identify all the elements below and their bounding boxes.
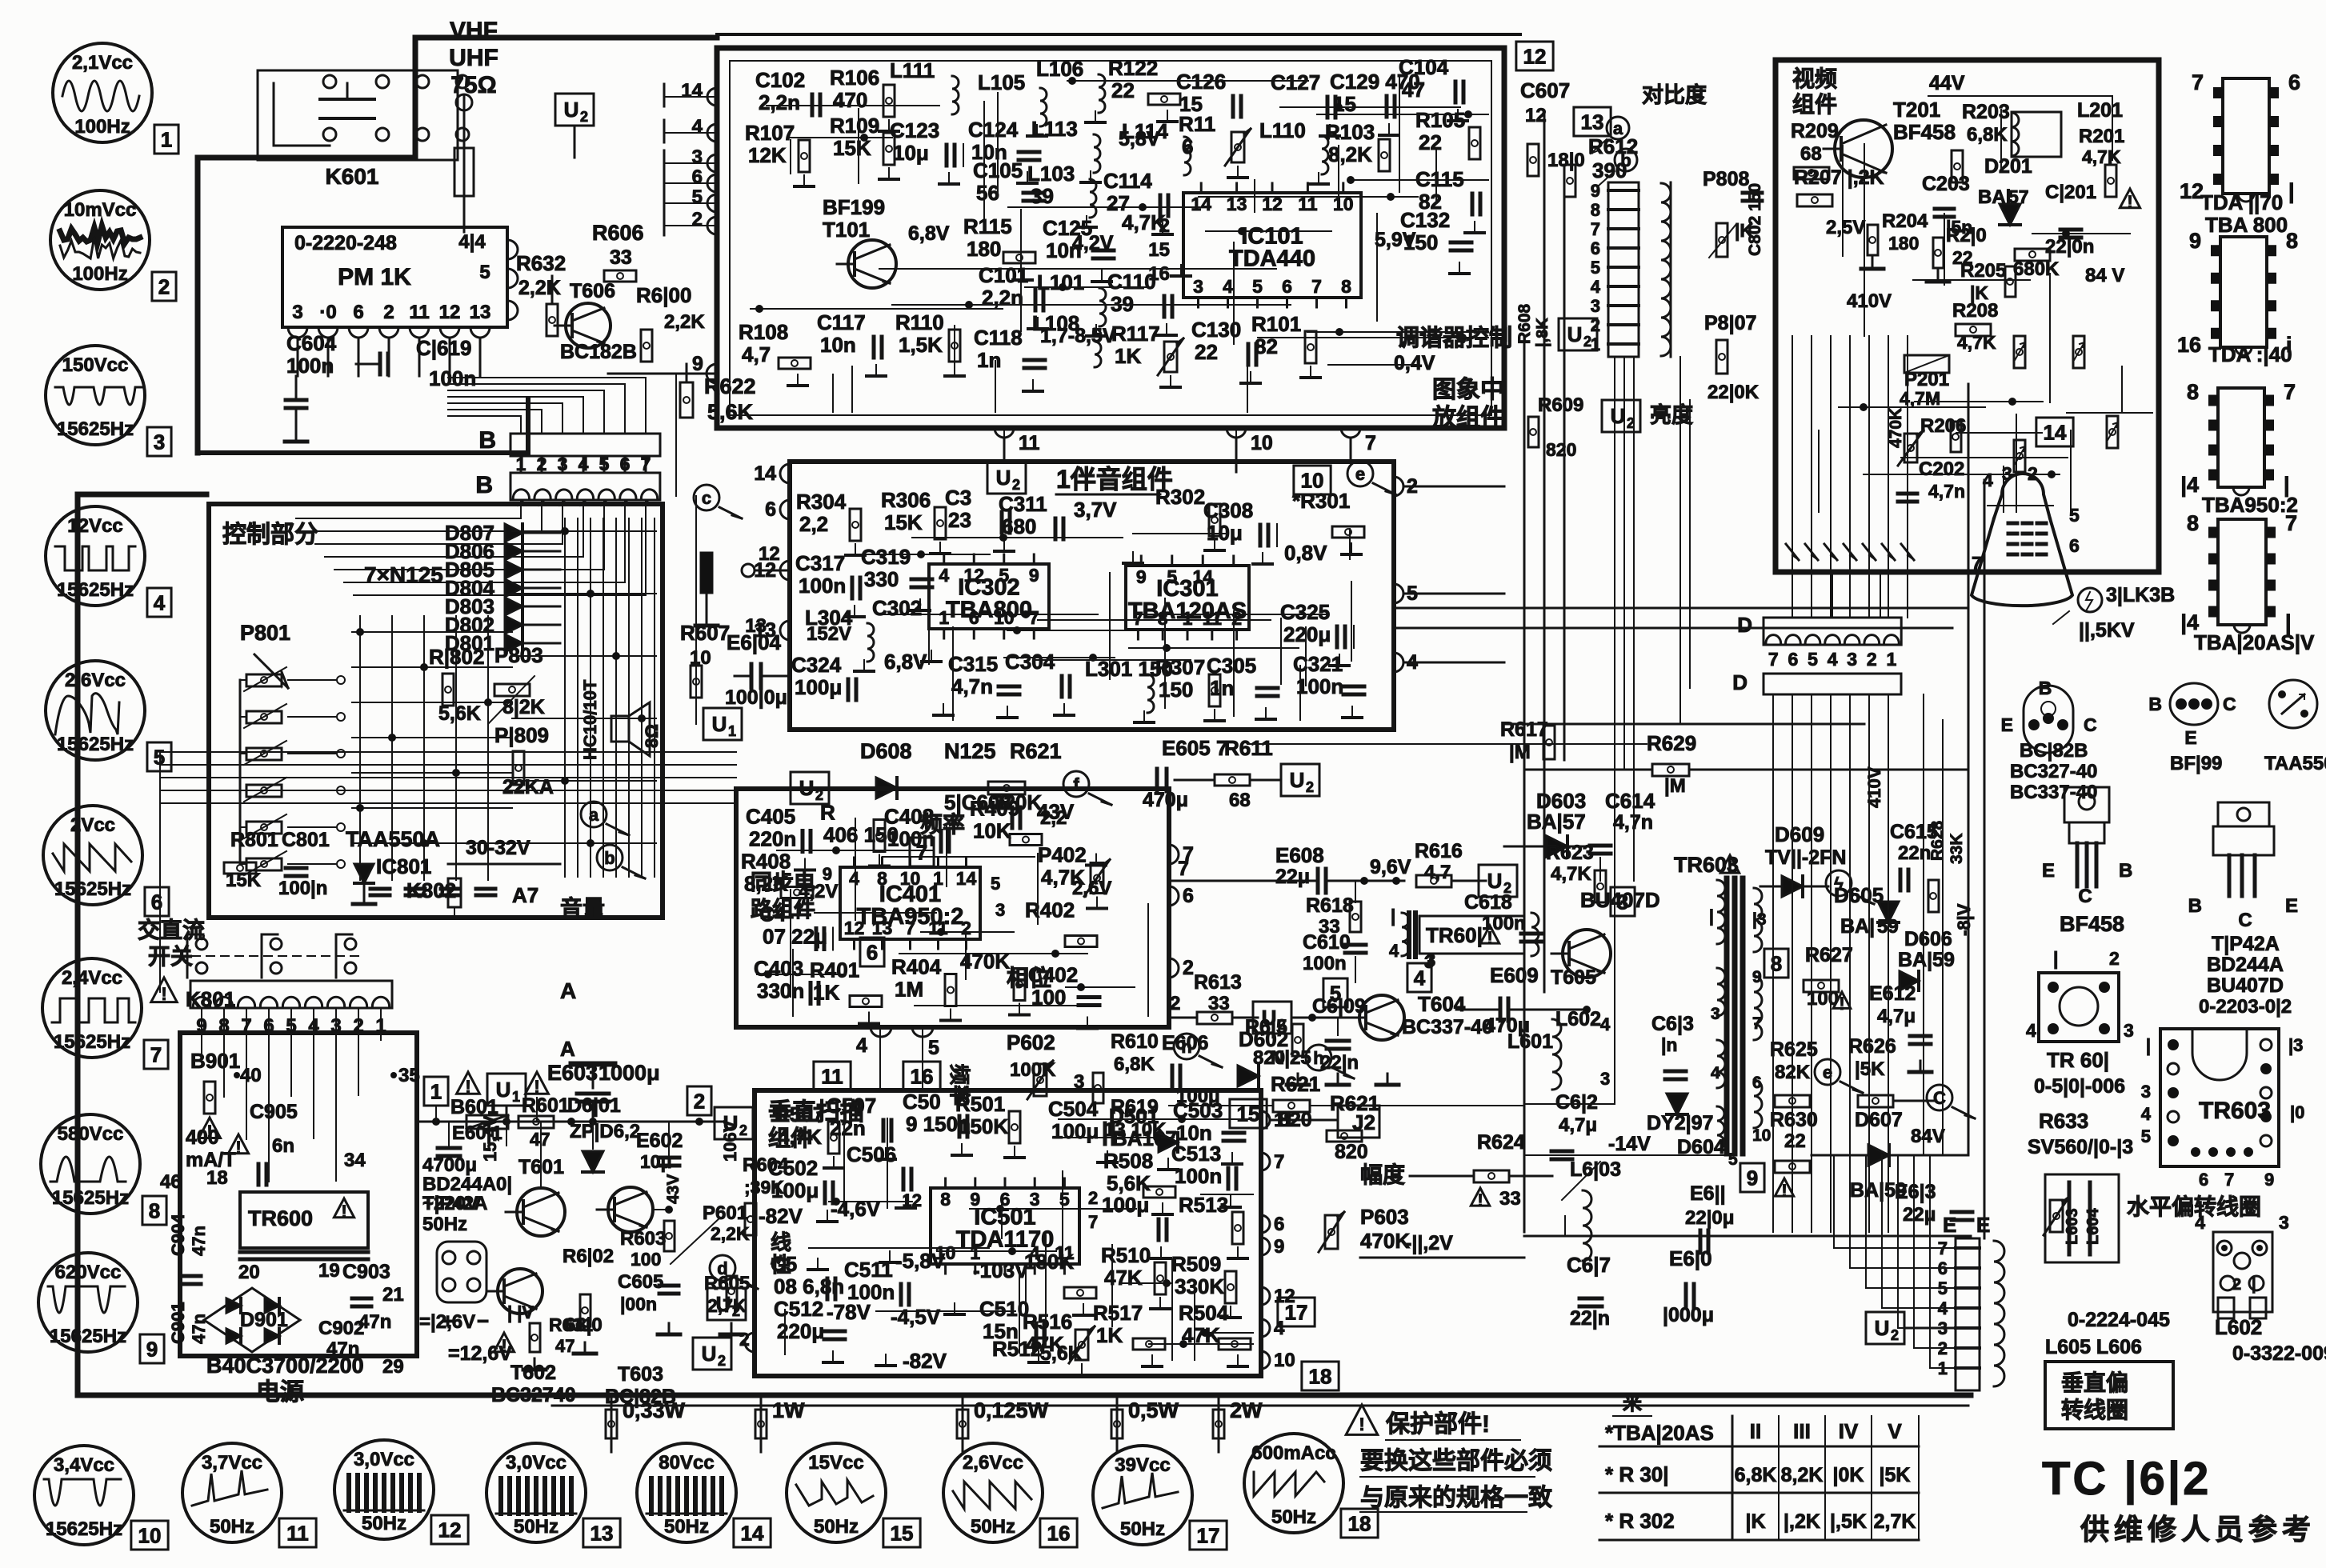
svg-text:2: 2 (1583, 334, 1591, 350)
svg-text:1: 1 (939, 607, 949, 628)
svg-text:2: 2 (158, 274, 170, 298)
svg-text:E608: E608 (1275, 843, 1324, 867)
svg-text:L110: L110 (1259, 118, 1306, 142)
svg-text:R208: R208 (1952, 300, 1998, 322)
svg-text:12: 12 (963, 565, 984, 586)
svg-text:5: 5 (599, 454, 610, 474)
svg-text:|5K: |5K (1855, 1058, 1885, 1080)
svg-text:f: f (1073, 774, 1079, 794)
svg-text:6: 6 (969, 607, 979, 628)
svg-text:33: 33 (610, 246, 632, 269)
svg-text:C117: C117 (817, 310, 866, 334)
svg-text:19: 19 (318, 1260, 340, 1282)
svg-text:| |V: | |V (507, 1302, 534, 1322)
svg-text:D201: D201 (1984, 155, 2032, 178)
svg-text:2,5V: 2,5V (1826, 217, 1865, 238)
node a b circles (1607, 117, 1629, 139)
svg-text:16: 16 (1047, 1521, 1071, 1545)
svg-text:1M: 1M (895, 978, 923, 1002)
svg-text:43V: 43V (664, 1174, 683, 1204)
svg-text:C: C (2078, 886, 2092, 907)
svg-text:6: 6 (1282, 276, 1292, 297)
svg-text:50Hz: 50Hz (514, 1516, 558, 1538)
svg-text:*R301: *R301 (1292, 489, 1350, 513)
contrast comb (1608, 182, 1639, 357)
svg-text:R624: R624 (1477, 1131, 1525, 1154)
svg-text:U: U (1875, 1316, 1890, 1340)
svg-text:180: 180 (1888, 233, 1919, 254)
waveform test point 2 (10mVcc) (50, 190, 150, 290)
waveform test point 6 (2Vcc) (43, 806, 142, 905)
svg-text:U: U (564, 98, 579, 122)
svg-text:C506: C506 (847, 1142, 896, 1166)
svg-text:-78V: -78V (827, 1300, 871, 1324)
svg-text:6: 6 (2288, 70, 2300, 94)
svg-text:1: 1 (161, 127, 172, 151)
svg-text:C118: C118 (974, 326, 1023, 350)
svg-text:330n: 330n (757, 979, 804, 1003)
svg-text:13: 13 (1581, 110, 1604, 134)
svg-text:4: 4 (154, 590, 166, 614)
svg-text:视频: 视频 (1792, 66, 1837, 91)
svg-text:470K: 470K (1887, 408, 1905, 448)
svg-text:10: 10 (138, 1523, 162, 1547)
svg-text:C|619: C|619 (416, 336, 471, 360)
wire IF bottom to audio (1003, 428, 1005, 462)
svg-text:5: 5 (1167, 566, 1177, 587)
svg-text:2: 2 (1306, 779, 1314, 795)
svg-text:2,1Vcc: 2,1Vcc (72, 52, 133, 74)
svg-text:P8|07: P8|07 (1704, 312, 1756, 334)
svg-text:转线圈: 转线圈 (2061, 1398, 2128, 1422)
svg-text:线: 线 (771, 1230, 791, 1254)
svg-text:4: 4 (1223, 276, 1233, 297)
svg-text:84 V: 84 V (2085, 265, 2124, 286)
svg-text:P602: P602 (1007, 1030, 1055, 1054)
svg-text:E: E (2042, 860, 2055, 882)
U2 box right (715, 1107, 753, 1139)
svg-text:4: 4 (2141, 1104, 2152, 1124)
svg-text:|3: |3 (2288, 1035, 2303, 1055)
svg-text:12: 12 (1523, 44, 1547, 68)
waveform test point 8 (580Vcc) (41, 1114, 140, 1214)
svg-text:470: 470 (833, 88, 867, 112)
svg-text:C901: C901 (168, 1302, 188, 1344)
svg-text:8,2K: 8,2K (1328, 142, 1372, 166)
resistor 18 0 (1527, 144, 1539, 176)
boxed 3 (1611, 887, 1635, 916)
svg-text:11: 11 (286, 1521, 309, 1545)
svg-text:C324: C324 (791, 653, 842, 677)
svg-text:TR603: TR603 (2199, 1098, 2271, 1124)
svg-text:9: 9 (692, 353, 703, 375)
svg-text:14: 14 (681, 80, 703, 102)
svg-text:V: V (1888, 1419, 1902, 1443)
svg-text:R625: R625 (1770, 1038, 1818, 1061)
svg-text:组件: 组件 (768, 1126, 813, 1150)
svg-text:U: U (996, 466, 1011, 490)
svg-text:15K: 15K (226, 870, 262, 891)
svg-text:14: 14 (956, 868, 977, 889)
svg-text:8: 8 (2187, 380, 2199, 404)
svg-text:2: 2 (1170, 993, 1180, 1014)
svg-text:600mAcc: 600mAcc (1251, 1442, 1335, 1464)
svg-text:410V: 410V (1864, 766, 1884, 808)
svg-text:-82V: -82V (903, 1349, 947, 1373)
svg-text:15625Hz: 15625Hz (57, 734, 134, 755)
svg-text:56: 56 (976, 181, 999, 205)
vertical yoke caption box (2045, 1362, 2173, 1429)
svg-text:15625Hz: 15625Hz (57, 418, 134, 440)
svg-text:9,6V: 9,6V (1370, 856, 1411, 878)
svg-text:100n: 100n (1482, 913, 1526, 934)
svg-text:!: ! (1839, 994, 1844, 1014)
svg-text:22μ: 22μ (1903, 1204, 1936, 1226)
svg-text:R510: R510 (1101, 1243, 1151, 1267)
svg-text:13: 13 (745, 615, 767, 637)
boxed J2 area wire (1524, 1154, 1727, 1156)
svg-text:C604: C604 (286, 331, 337, 355)
svg-text:8: 8 (877, 868, 887, 889)
svg-text:C202: C202 (1919, 458, 1964, 480)
svg-text:C6|2: C6|2 (1555, 1091, 1598, 1114)
svg-text:50Hz: 50Hz (210, 1516, 254, 1538)
U2 box r613 (1253, 1002, 1291, 1034)
svg-text:7: 7 (1972, 553, 1982, 574)
svg-text:10: 10 (1251, 432, 1273, 454)
control bus verticals (564, 518, 566, 877)
coax connector (463, 96, 466, 224)
svg-text:5,9V: 5,9V (1375, 229, 1416, 251)
svg-text:3: 3 (995, 900, 1005, 920)
svg-text:D609: D609 (1775, 822, 1824, 846)
svg-text:23: 23 (948, 508, 971, 532)
svg-text:|000μ: |000μ (1663, 1304, 1714, 1326)
svg-text:3,7Vcc: 3,7Vcc (202, 1452, 262, 1474)
preset pot row 3 (246, 748, 282, 760)
svg-text:1n: 1n (977, 348, 1001, 372)
svg-text:68: 68 (1800, 143, 1822, 165)
svg-text:C504: C504 (1048, 1097, 1099, 1121)
svg-text:性: 性 (771, 1253, 791, 1277)
boxed 9 (1740, 1163, 1764, 1192)
svg-text:6n: 6n (272, 1135, 294, 1157)
svg-text:2: 2 (1183, 957, 1194, 979)
svg-text:15,4V: 15,4V (480, 1115, 500, 1162)
svg-text:C325: C325 (1280, 600, 1330, 624)
svg-text:15625Hz: 15625Hz (52, 1187, 129, 1209)
boxed 12 top right (1516, 42, 1553, 70)
svg-text:4: 4 (1274, 1318, 1285, 1339)
svg-text:C512: C512 (774, 1297, 823, 1321)
boxed 5 (1323, 978, 1347, 1007)
svg-text:C405: C405 (746, 805, 795, 829)
svg-text:44V: 44V (1929, 72, 1965, 94)
boxed 2 (687, 1086, 711, 1115)
svg-text:R105: R105 (1415, 108, 1465, 132)
svg-text:152V: 152V (807, 623, 851, 645)
node e circle (1815, 1059, 1840, 1085)
svg-text:T603: T603 (618, 1363, 663, 1386)
video block frame (1776, 60, 2159, 572)
svg-text:控制部分: 控制部分 (222, 521, 318, 548)
svg-text:6: 6 (765, 498, 776, 521)
svg-text:!: ! (1477, 1190, 1483, 1210)
svg-text:50Hz: 50Hz (664, 1516, 709, 1538)
waveform test point 1 (2,1Vcc) (53, 43, 152, 142)
vertical right pins (1261, 1111, 1270, 1129)
svg-text:R621: R621 (1271, 1072, 1320, 1096)
svg-text:C6|7: C6|7 (1567, 1253, 1611, 1277)
vertical resistors in video (2014, 336, 2025, 368)
svg-text:L101: L101 (1037, 270, 1084, 294)
IF block frame (717, 48, 1504, 428)
svg-text:4,7K: 4,7K (1551, 863, 1591, 885)
svg-text:A: A (560, 978, 576, 1003)
svg-text:7: 7 (2192, 70, 2204, 94)
svg-text:U: U (712, 712, 727, 736)
svg-text:12: 12 (844, 918, 865, 938)
svg-text:e: e (1355, 464, 1365, 484)
svg-text:4: 4 (2195, 1212, 2205, 1233)
svg-text:43V: 43V (1037, 800, 1075, 824)
svg-text:!: ! (501, 1336, 506, 1356)
svg-text:220n: 220n (749, 827, 796, 851)
svg-text:B: B (2188, 895, 2202, 917)
resistor R622 5,6K (680, 382, 693, 418)
svg-text:8,2K: 8,2K (1781, 1464, 1824, 1486)
svg-text:R517: R517 (1093, 1301, 1143, 1325)
svg-text:3: 3 (1847, 649, 1857, 670)
svg-text:-82V: -82V (759, 1204, 803, 1228)
transistor T606 BC182B (566, 303, 611, 348)
svg-text:6: 6 (1182, 134, 1193, 158)
outer frame left (75, 494, 81, 1395)
svg-text:B40C3700/2200: B40C3700/2200 (206, 1354, 364, 1378)
svg-text:5: 5 (991, 874, 1000, 894)
svg-text:4,7K: 4,7K (1957, 332, 1996, 353)
svg-text:2: 2 (580, 109, 588, 125)
svg-text:-||,2V: -||,2V (1405, 1232, 1453, 1254)
svg-text:T604: T604 (1418, 992, 1466, 1016)
CRT tube label (2078, 588, 2102, 612)
svg-text:-8|V: -8|V (1954, 903, 1974, 936)
svg-text:2: 2 (694, 1089, 705, 1113)
svg-text:b: b (604, 848, 615, 868)
svg-text:!: ! (465, 1077, 470, 1097)
svg-text:T101: T101 (823, 218, 870, 242)
BF199 pinout (2170, 683, 2218, 725)
svg-text:BF199: BF199 (823, 195, 885, 219)
svg-text:330: 330 (864, 567, 899, 591)
svg-text:TR 60|: TR 60| (2047, 1048, 2109, 1072)
svg-text:TBA800: TBA800 (946, 598, 1032, 623)
svg-text:L111: L111 (890, 58, 935, 82)
svg-text:6: 6 (1183, 885, 1194, 907)
svg-text:3: 3 (292, 302, 302, 323)
svg-text:3,0Vcc: 3,0Vcc (354, 1449, 414, 1470)
svg-text:R611: R611 (1224, 736, 1273, 760)
svg-text:2: 2 (383, 302, 394, 323)
svg-text:BD244A0|: BD244A0| (422, 1174, 512, 1195)
svg-text:E6||: E6|| (1690, 1182, 1726, 1205)
svg-text:7: 7 (1029, 607, 1039, 628)
svg-text:2: 2 (1891, 1327, 1899, 1343)
svg-text:100|n: 100|n (278, 878, 327, 899)
svg-text:!: ! (1727, 858, 1732, 878)
svg-text:2: 2 (537, 454, 547, 474)
svg-text:|: | (2146, 1035, 2151, 1055)
waveform test point 3 (150Vcc) (46, 346, 145, 445)
svg-text:84V: 84V (1911, 1126, 1945, 1147)
svg-text:UHF: UHF (449, 45, 498, 71)
svg-text:K601: K601 (326, 164, 379, 189)
svg-text:R6|02: R6|02 (562, 1246, 614, 1267)
node a b arrows (581, 802, 607, 827)
svg-text:R628: R628 (1928, 820, 1947, 861)
svg-text:100n: 100n (799, 574, 846, 598)
sync bottom pins (871, 1027, 891, 1037)
svg-text:7: 7 (1311, 276, 1322, 297)
svg-text:R107: R107 (745, 121, 795, 145)
svg-text:106V: 106V (720, 1120, 740, 1162)
svg-text:|M: |M (1509, 742, 1531, 763)
TR601 connector (2039, 973, 2119, 1042)
svg-text:820: 820 (1546, 439, 1576, 460)
svg-text:14: 14 (1192, 566, 1213, 587)
svg-text:4: 4 (1828, 649, 1838, 670)
warning triangle 2 (526, 1072, 549, 1094)
svg-text:7: 7 (1178, 858, 1189, 880)
sync right pins (1169, 845, 1179, 864)
svg-text:C124: C124 (968, 118, 1019, 142)
svg-text:R201: R201 (2079, 126, 2124, 147)
waveform test point 15 (15Vcc) (787, 1443, 886, 1542)
svg-text:ZP|D6,2: ZP|D6,2 (570, 1121, 640, 1142)
svg-text:!: ! (1781, 1181, 1787, 1201)
svg-text:R633: R633 (2039, 1109, 2088, 1133)
svg-text:8Ω: 8Ω (642, 724, 662, 748)
waveform test point 10 (3,4Vcc) (34, 1446, 134, 1545)
svg-text:100μ: 100μ (1102, 1193, 1149, 1217)
svg-text:R6|5: R6|5 (1245, 1016, 1287, 1038)
svg-text:!: ! (1359, 1414, 1364, 1434)
svg-text:R630: R630 (1770, 1109, 1818, 1131)
svg-text:R203: R203 (1962, 101, 2010, 123)
svg-text:3,4Vcc: 3,4Vcc (54, 1454, 114, 1476)
svg-text:7: 7 (1365, 432, 1376, 454)
svg-text:8: 8 (1158, 608, 1168, 629)
svg-text:相位: 相位 (1007, 965, 1051, 990)
svg-text:垂直偏: 垂直偏 (2061, 1370, 2128, 1395)
svg-text:6: 6 (353, 302, 363, 323)
svg-text:P808: P808 (1703, 168, 1749, 190)
svg-text:470μ: 470μ (1143, 789, 1188, 811)
svg-text:100Hz: 100Hz (74, 116, 130, 138)
boxed 7 6 in sync (910, 838, 934, 866)
svg-text:R513: R513 (1179, 1193, 1228, 1217)
svg-text:4,7μ: 4,7μ (1877, 1006, 1916, 1027)
svg-text:5,6K: 5,6K (438, 702, 481, 725)
svg-text:9: 9 (1136, 566, 1147, 587)
svg-text:6,8K: 6,8K (1114, 1054, 1155, 1075)
svg-text:SV560/|0-|3: SV560/|0-|3 (2028, 1136, 2133, 1158)
R631 47 (494, 1333, 514, 1352)
vertical left pin (745, 1333, 755, 1352)
svg-text:交直流: 交直流 (138, 917, 205, 942)
outer frame bottom (78, 1393, 1971, 1398)
svg-text:BC337-40: BC337-40 (2010, 782, 2097, 803)
power resistor legend 0,125W (962, 1396, 964, 1452)
svg-text:1,5K: 1,5K (899, 333, 943, 357)
svg-text:4: 4 (692, 116, 703, 138)
waveform test point 12 (3,0Vcc) (334, 1440, 434, 1539)
svg-text:1: 1 (516, 454, 526, 474)
svg-text:C902: C902 (318, 1318, 364, 1339)
svg-text:8: 8 (2286, 229, 2298, 253)
svg-text:亮度: 亮度 (1650, 402, 1693, 427)
U2 below IF (987, 462, 1026, 494)
svg-text:1K: 1K (1096, 1323, 1123, 1347)
svg-text:c: c (702, 488, 711, 508)
svg-text:B901: B901 (190, 1049, 240, 1073)
waveform test point 17 (39Vcc) (1093, 1446, 1192, 1545)
svg-text:|: | (1391, 906, 1395, 926)
svg-text:TR600: TR600 (248, 1206, 313, 1230)
svg-text:L601: L601 (1507, 1030, 1553, 1053)
svg-text:2,2K: 2,2K (711, 1223, 750, 1244)
svg-text:2: 2 (718, 1353, 726, 1369)
svg-text:B: B (2119, 860, 2132, 882)
svg-text:B: B (2148, 694, 2162, 714)
svg-text:2: 2 (1627, 415, 1635, 431)
svg-text:1K: 1K (813, 981, 839, 1005)
svg-text:0-2203-0|2: 0-2203-0|2 (2199, 996, 2292, 1018)
svg-text:22|n: 22|n (1570, 1307, 1610, 1330)
svg-text:9: 9 (1747, 1166, 1758, 1190)
audio block frame (790, 462, 1394, 730)
svg-text:E609: E609 (1490, 963, 1539, 987)
svg-text:5,6K: 5,6K (1040, 1342, 1083, 1365)
svg-text:C: C (2238, 910, 2252, 931)
svg-text:|: | (2053, 948, 2058, 969)
svg-text:R516: R516 (1023, 1310, 1072, 1334)
svg-text:9: 9 (1591, 181, 1600, 201)
preset pot row 1 (246, 674, 282, 686)
bus from B comb to blocks (160, 751, 736, 753)
svg-text:R106: R106 (830, 66, 879, 90)
svg-text:C50: C50 (903, 1090, 941, 1114)
svg-text:13: 13 (872, 918, 893, 938)
svg-text:-103V: -103V (973, 1258, 1029, 1282)
svg-text:2: 2 (2109, 948, 2120, 969)
svg-text:8: 8 (1591, 200, 1600, 220)
svg-text:100n: 100n (286, 354, 334, 378)
svg-text:频率: 频率 (920, 811, 965, 837)
svg-text:TBA 800: TBA 800 (2205, 213, 2288, 237)
svg-text:C605: C605 (618, 1271, 663, 1293)
svg-text:C3: C3 (945, 486, 971, 510)
svg-text:2: 2 (739, 1329, 750, 1350)
waveform test point 9 (620Vcc) (38, 1253, 138, 1352)
svg-text:620Vcc: 620Vcc (55, 1262, 122, 1283)
waveform test point 4 (12Vcc) (46, 506, 145, 606)
svg-text:TDA440: TDA440 (1229, 246, 1315, 272)
wires sync to vertical (879, 1027, 881, 1090)
svg-text:50Hz: 50Hz (814, 1516, 859, 1538)
svg-text:22μ: 22μ (1275, 866, 1310, 888)
svg-text:B: B (475, 472, 493, 498)
